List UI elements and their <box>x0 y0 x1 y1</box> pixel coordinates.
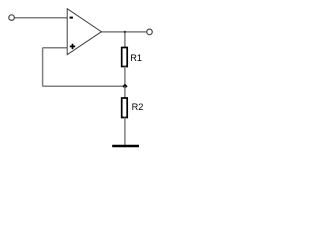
wire: non-inverting input stub <box>43 47 68 49</box>
wire: output node down to R1 <box>124 32 126 48</box>
junction dot at output node <box>124 31 127 34</box>
input terminal <box>9 15 15 21</box>
resistor R1 body <box>122 48 128 67</box>
ground <box>112 145 139 147</box>
wire: op-amp output to output terminal <box>101 31 147 33</box>
junction dot at feedback node <box>122 84 127 89</box>
wire: R1 bottom to feedback node <box>124 67 126 87</box>
wire: feedback horizontal segment <box>43 85 125 87</box>
svg-text:R1: R1 <box>130 53 142 63</box>
output terminal <box>147 29 153 35</box>
wire: feedback node to R2 <box>124 86 126 98</box>
op-amp plus label <box>70 45 75 47</box>
op-amp U1 triangle <box>67 9 101 55</box>
wire: input terminal to op-amp inverting input <box>14 17 67 19</box>
wire: R2 bottom to ground <box>124 118 126 146</box>
svg-text:R2: R2 <box>132 102 144 112</box>
op-amp minus label <box>70 17 73 19</box>
wire: feedback vertical segment <box>42 48 44 87</box>
resistor R2 body <box>122 98 128 118</box>
